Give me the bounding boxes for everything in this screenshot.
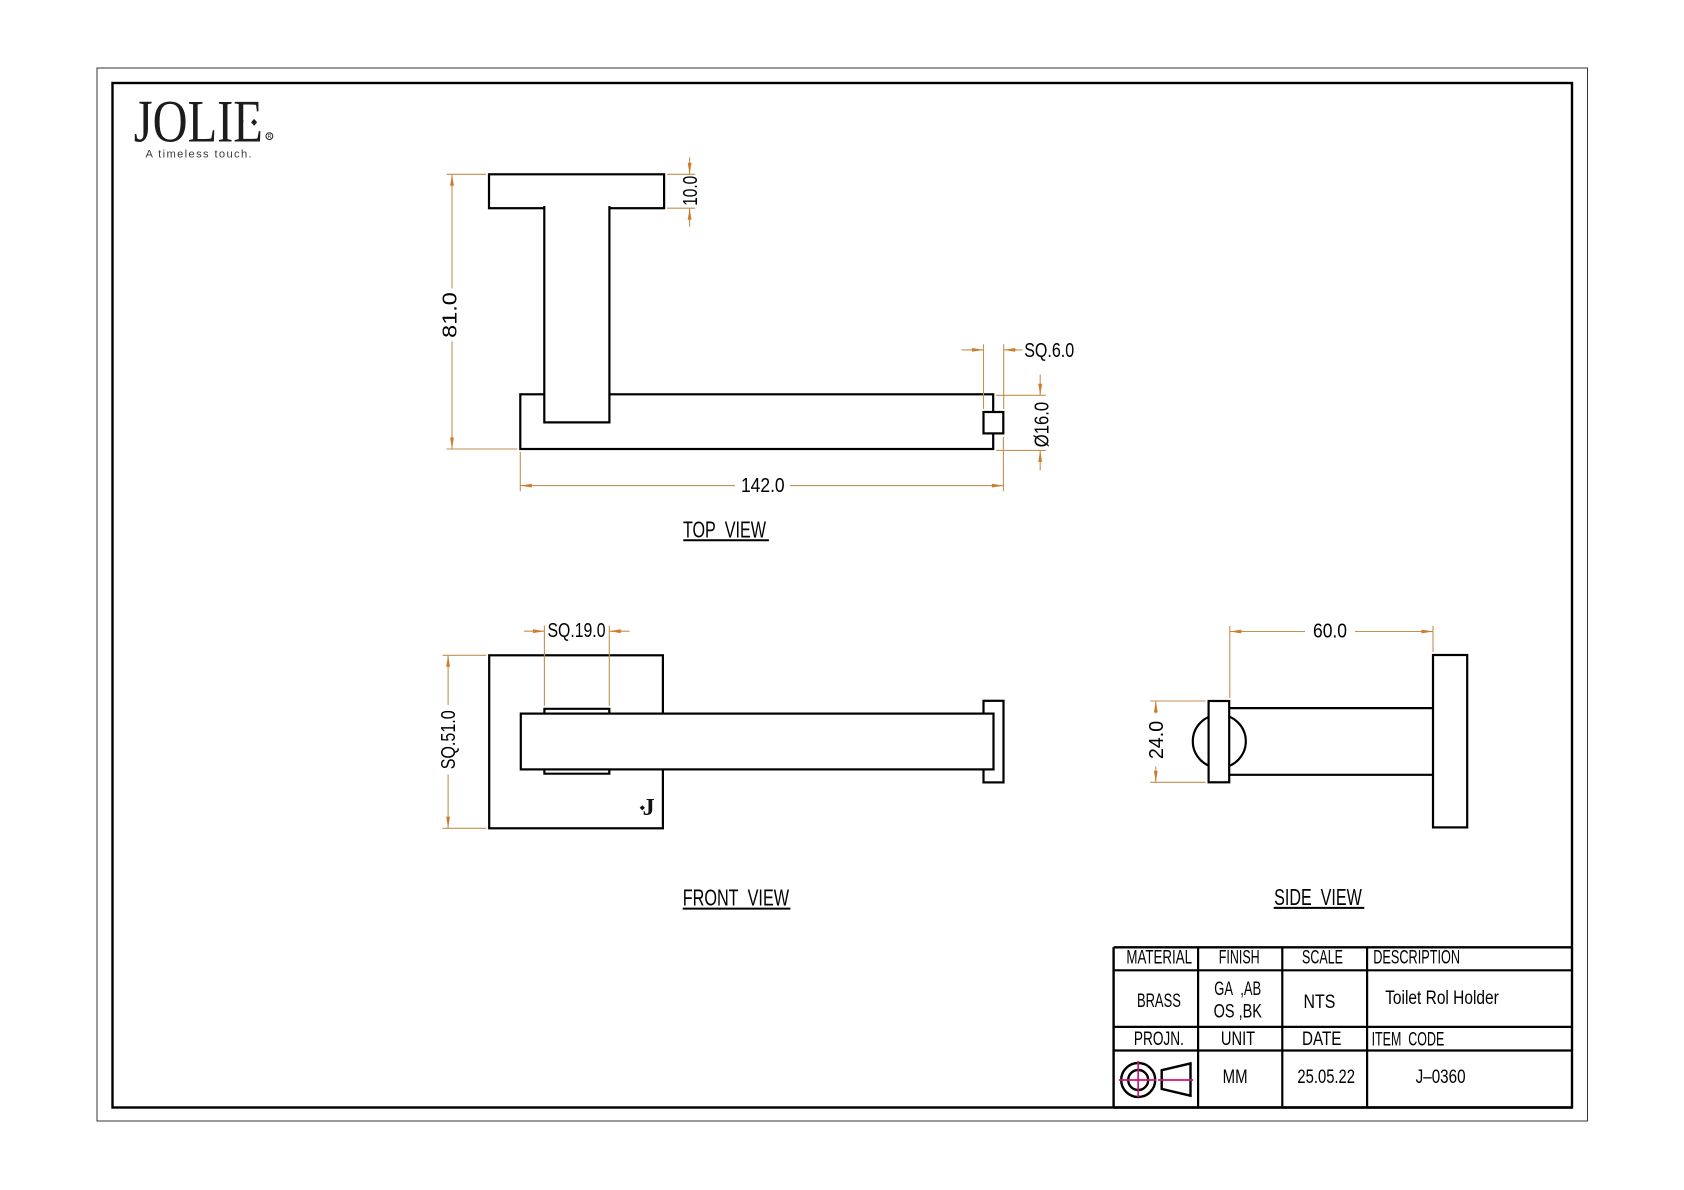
projection symbol centerline vertical — [1137, 1061, 1139, 1097]
top view wall flange — [489, 174, 664, 208]
projection symbol outer circle — [1121, 1063, 1155, 1097]
dimension 10.0 flange thickness — [667, 158, 702, 227]
svg-text:PROJN.: PROJN. — [1134, 1029, 1184, 1050]
dimension 24.0 cap height — [1146, 701, 1206, 782]
front view stem tab above arm — [544, 709, 609, 714]
dimension SQ.51.0 flange — [438, 655, 486, 828]
svg-text:Ø16.0: Ø16.0 — [1031, 402, 1053, 447]
svg-text:SCALE: SCALE — [1302, 948, 1343, 969]
inner border frame — [113, 83, 1573, 1108]
svg-text:ITEM CODE: ITEM CODE — [1372, 1030, 1445, 1051]
projection symbol centerline horizontal — [1119, 1079, 1193, 1081]
side view roll circle — [1193, 715, 1246, 768]
svg-text:NTS: NTS — [1304, 992, 1336, 1013]
top view stem post — [544, 206, 609, 422]
logo diamond accent — [251, 119, 257, 126]
svg-text:SQ.19.0: SQ.19.0 — [548, 620, 606, 642]
logo registered trademark symbol — [266, 133, 273, 140]
svg-text:10.0: 10.0 — [680, 176, 702, 206]
svg-text:BRASS: BRASS — [1137, 991, 1181, 1012]
logo JOLIE wordmark — [134, 89, 263, 155]
top view arm bar — [520, 394, 993, 449]
side view arm top line — [1229, 707, 1433, 709]
svg-text:J–0360: J–0360 — [1416, 1067, 1466, 1088]
svg-text:SIDE VIEW: SIDE VIEW — [1274, 884, 1362, 910]
svg-text:SQ.6.0: SQ.6.0 — [1024, 340, 1074, 362]
svg-text:142.0: 142.0 — [741, 475, 785, 497]
dimension diameter 16.0 arm width — [996, 375, 1053, 471]
front view arm bar — [521, 714, 994, 770]
projection symbol inner circle — [1128, 1070, 1148, 1090]
svg-text:Toilet Rol Holder: Toilet Rol Holder — [1385, 988, 1499, 1009]
svg-text:SQ.51.0: SQ.51.0 — [438, 710, 460, 769]
dimension 81.0 top view height — [440, 174, 518, 449]
svg-text:OS ,BK: OS ,BK — [1214, 1002, 1263, 1023]
side view arm bottom line — [1229, 774, 1433, 776]
title block table grid — [1114, 947, 1572, 1107]
svg-text:25.05.22: 25.05.22 — [1297, 1067, 1355, 1088]
svg-text:GA ,AB: GA ,AB — [1214, 979, 1261, 1000]
svg-text:81.0: 81.0 — [440, 292, 462, 338]
dimension SQ.6.0 end knob — [961, 340, 1074, 409]
svg-text:MATERIAL: MATERIAL — [1126, 948, 1192, 969]
svg-text:MM: MM — [1223, 1067, 1248, 1088]
label SIDE VIEW — [1274, 884, 1365, 910]
side view wall plate — [1433, 655, 1467, 827]
logo E middle-bar whiteout — [243, 114, 261, 129]
front view stem tab below arm — [544, 769, 609, 773]
svg-text:UNIT: UNIT — [1221, 1029, 1256, 1050]
front view end cap — [984, 701, 1004, 783]
front view J engraving mark — [640, 795, 655, 821]
svg-text:R: R — [267, 134, 271, 140]
dimension 142.0 arm length — [520, 437, 1003, 497]
label TOP VIEW — [683, 517, 769, 543]
svg-text:60.0: 60.0 — [1313, 620, 1347, 642]
side view end cap front face — [1209, 701, 1230, 782]
svg-text:DATE: DATE — [1302, 1029, 1341, 1050]
outer border frame — [97, 68, 1588, 1121]
dimension 60.0 projection depth — [1230, 620, 1433, 698]
svg-text:DESCRIPTION: DESCRIPTION — [1373, 948, 1460, 969]
svg-text:TOP VIEW: TOP VIEW — [683, 517, 766, 543]
top view end knob — [984, 412, 1004, 433]
front view wall flange plate — [489, 655, 663, 828]
svg-text:A timeless touch.: A timeless touch. — [146, 148, 254, 160]
svg-text:FINISH: FINISH — [1219, 948, 1260, 969]
svg-text:J: J — [643, 795, 655, 821]
svg-text:24.0: 24.0 — [1146, 721, 1168, 759]
label FRONT VIEW — [683, 885, 791, 911]
svg-text:FRONT VIEW: FRONT VIEW — [683, 885, 790, 911]
projection symbol frustum — [1162, 1063, 1191, 1095]
dimension SQ.19.0 stem — [524, 620, 630, 706]
